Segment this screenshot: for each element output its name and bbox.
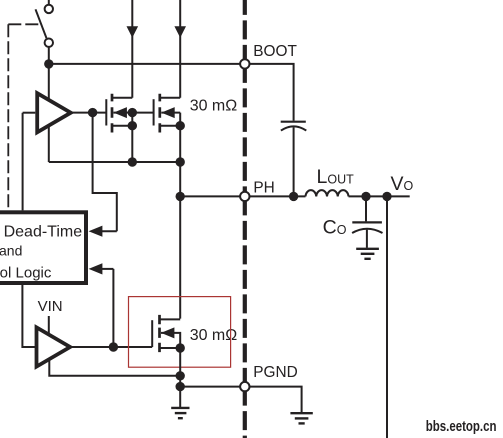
pin PH bbox=[240, 192, 249, 201]
wire PH to pin bbox=[180, 195, 240, 197]
capacitor C1 bootstrap curved plate bbox=[281, 126, 306, 130]
svg-text:and: and bbox=[0, 243, 22, 259]
wire logic box to U2 input bbox=[22, 283, 35, 347]
wire U1 output gate line bbox=[71, 112, 107, 114]
arrowhead down 1 bbox=[127, 26, 139, 38]
svg-text:30 mΩ: 30 mΩ bbox=[190, 98, 238, 115]
wire U1 input feed from logic box bbox=[22, 113, 24, 211]
wire bootstrap cap to PH bbox=[293, 127, 295, 196]
wire VIN supply stub bbox=[48, 316, 50, 335]
svg-text:LOUT: LOUT bbox=[317, 166, 355, 188]
arrowhead into box 1 bbox=[89, 226, 103, 237]
wire U2 return drop bbox=[49, 359, 180, 376]
wire U1 input bbox=[23, 112, 36, 114]
ground low side bbox=[171, 408, 189, 418]
wire Q1 body-source to rail bbox=[131, 113, 133, 162]
node bootstrap-PH dot bbox=[289, 192, 298, 201]
ground PGND external bbox=[290, 413, 312, 423]
wire CO lead bbox=[365, 196, 367, 221]
wire VO down bbox=[386, 196, 388, 438]
transistor Q1 source stub bbox=[112, 125, 132, 127]
node VO junction dot bbox=[382, 192, 391, 201]
node Q3 source dot bbox=[176, 343, 185, 352]
wire Q2 body-source down to PH and low FET drain bbox=[179, 113, 181, 319]
transistor Q1 body arrow bbox=[114, 107, 127, 118]
svg-text:bbs.eetop.cn: bbs.eetop.cn bbox=[426, 418, 497, 435]
transistor Q3 source stub bbox=[160, 347, 181, 349]
transistor Q1 body wire bbox=[114, 112, 133, 114]
wire gate link Q1 to Q2 bbox=[132, 112, 153, 114]
wire PGND rail to pin bbox=[180, 386, 240, 388]
transistor Q2 channel bar bbox=[158, 94, 161, 133]
wire BOOT rail bbox=[49, 63, 240, 65]
switch top contact bbox=[45, 5, 53, 13]
node U2 output dot bbox=[109, 342, 118, 351]
wire current-source line 2 bbox=[179, 0, 181, 98]
transistor Q3 channel bar bbox=[158, 315, 161, 352]
node BOOT junction dot bbox=[44, 59, 53, 68]
svg-text:PH: PH bbox=[253, 179, 274, 196]
wire arrow1 into logic box bbox=[101, 230, 117, 232]
op-amp U1 high-side gate driver bbox=[37, 93, 71, 132]
wire U1 return drop bbox=[48, 125, 50, 162]
transistor Q3 body arrow bbox=[161, 327, 174, 338]
wire supply to driver U1 bbox=[48, 64, 50, 101]
capacitor CO curved plate bbox=[352, 229, 382, 233]
transistor Q2 gate bar bbox=[153, 99, 155, 125]
capacitor CO top plate bbox=[352, 221, 382, 223]
control dashed line to switch bbox=[8, 24, 39, 208]
wire BOOT pin to bootstrap cap bbox=[250, 64, 294, 121]
wire source return rail bbox=[49, 161, 180, 163]
node Q1 source dot bbox=[128, 121, 137, 130]
node Q2 source dot bbox=[176, 121, 185, 130]
arrowhead into box 2 bbox=[89, 263, 103, 274]
node PGND rail dot bbox=[176, 382, 185, 391]
wire inductor to output bbox=[349, 195, 410, 197]
node PH junction dot bbox=[176, 192, 185, 201]
control logic box bbox=[0, 212, 86, 283]
wire PH pin to inductor bbox=[250, 195, 306, 197]
node return-rail dot bbox=[176, 371, 185, 380]
svg-text:BOOT: BOOT bbox=[253, 43, 297, 60]
transistor Q3 gate bar bbox=[151, 320, 153, 347]
transistor Q3 drain stub bbox=[160, 318, 181, 320]
node dot source rail / Q1 bbox=[128, 157, 137, 166]
switch lever bbox=[36, 9, 47, 38]
node Q1 body dot bbox=[128, 108, 137, 117]
switch bottom contact bbox=[45, 39, 53, 47]
svg-text:Control Logic: Control Logic bbox=[0, 265, 52, 282]
transistor Q2 body wire bbox=[161, 112, 180, 114]
svg-text:VIN: VIN bbox=[38, 298, 63, 315]
wire CO to ground bbox=[366, 230, 368, 248]
inductor LOUT bbox=[306, 190, 349, 196]
transistor Q2 source stub bbox=[160, 125, 180, 127]
red highlight box bbox=[129, 297, 231, 368]
svg-text:Dead-Time: Dead-Time bbox=[4, 223, 83, 240]
wire Q3 source down to PGND rail bbox=[179, 348, 181, 387]
IC boundary dashed line bbox=[243, 0, 247, 438]
wire switch to BOOT node bbox=[48, 47, 50, 64]
wire U2 output gate line bbox=[70, 346, 152, 348]
svg-text:VO: VO bbox=[391, 173, 414, 195]
transistor Q3 body wire bbox=[161, 333, 180, 348]
transistor Q1 channel bar bbox=[111, 94, 114, 133]
capacitor C1 bootstrap top plate bbox=[281, 121, 306, 123]
svg-text:CO: CO bbox=[323, 217, 347, 239]
wire PGND pin to external ground bbox=[250, 387, 302, 413]
pin PGND bbox=[240, 382, 249, 391]
wire low-side ground lead bbox=[179, 387, 181, 407]
wire gate sense to logic bbox=[93, 113, 117, 232]
transistor Q2 body arrow bbox=[161, 107, 174, 118]
transistor Q1 gate bar bbox=[105, 99, 107, 125]
op-amp U2 low-side gate driver bbox=[37, 327, 71, 366]
wire stub above switch bbox=[48, 0, 50, 5]
node dot source rail / Q2 bbox=[176, 157, 185, 166]
node U1 output dot bbox=[88, 108, 97, 117]
wire arrow2 into logic box bbox=[101, 268, 114, 270]
wire low gate sense feed bbox=[112, 269, 114, 347]
node CO junction dot bbox=[361, 192, 370, 201]
transistor Q1 drain stub bbox=[112, 97, 132, 99]
wire current-source line 1 bbox=[131, 0, 133, 98]
pin BOOT bbox=[240, 59, 249, 68]
arrowhead down 2 bbox=[174, 26, 186, 38]
svg-text:PGND: PGND bbox=[253, 364, 297, 381]
transistor Q2 drain stub bbox=[160, 97, 180, 99]
ground CO bbox=[356, 249, 379, 259]
